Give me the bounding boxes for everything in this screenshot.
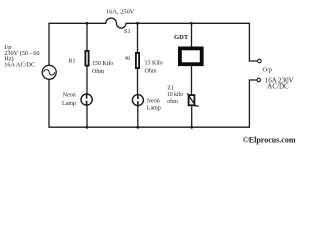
- wire: branch 2 lower: [137, 106, 139, 128]
- GDT gas discharge tube: [180, 48, 202, 64]
- varistor Z1: [187, 93, 199, 106]
- svg-text:R2: R2: [125, 55, 130, 60]
- svg-text:150 Kilo: 150 Kilo: [92, 61, 113, 67]
- svg-text:Neon: Neon: [147, 98, 160, 104]
- svg-text:15 Kilo: 15 Kilo: [145, 60, 163, 66]
- svg-text:©Elprocus.com: ©Elprocus.com: [243, 136, 296, 145]
- svg-text:16A AC/DC: 16A AC/DC: [4, 61, 35, 68]
- junction dot bottom rail / branch 3: [190, 126, 193, 129]
- svg-text:ohm: ohm: [167, 99, 178, 105]
- junction dot top rail / branch 3: [190, 22, 193, 25]
- svg-text:Ohm: Ohm: [92, 69, 104, 75]
- svg-text:AC/DC: AC/DC: [267, 82, 289, 90]
- svg-text:Lamp: Lamp: [62, 101, 76, 107]
- wire: branch 1 middle: [86, 67, 88, 95]
- junction dot top rail / branch 2: [136, 22, 139, 25]
- svg-text:Ohm: Ohm: [145, 69, 157, 75]
- neon lamp 2: [132, 95, 143, 106]
- wire: left rail upper (source to top rail): [48, 23, 50, 66]
- wire: branch 3 upper: [191, 23, 193, 47]
- output terminal 2 circle: [257, 78, 261, 82]
- wire: branch 2 upper: [137, 23, 139, 53]
- wire: branch 1 upper: [86, 23, 88, 51]
- svg-text:Lamp: Lamp: [147, 106, 161, 112]
- junction dot bottom rail / branch 1: [86, 126, 89, 129]
- wire: left rail lower (source to bottom rail): [48, 79, 50, 127]
- resistor R1: [85, 51, 88, 66]
- junction dot bottom rail / branch 2: [136, 126, 139, 129]
- wire: bottom rail: [48, 126, 250, 128]
- source V1: AC input circle with sine: [42, 65, 56, 79]
- wire: right rail lower to output terminal 2: [249, 80, 257, 128]
- svg-text:S1: S1: [124, 28, 131, 35]
- svg-text:R1: R1: [69, 59, 76, 65]
- wire: branch 3 middle: [191, 66, 193, 95]
- wire: branch 2 middle: [137, 69, 139, 95]
- wire: branch 3 lower: [191, 106, 193, 127]
- wire: branch 1 lower: [86, 105, 88, 127]
- svg-text:10 kilo: 10 kilo: [167, 92, 183, 98]
- neon lamp 1: [81, 94, 92, 105]
- junction dot top rail / branch 1: [86, 22, 89, 25]
- svg-text:Neon: Neon: [63, 93, 76, 99]
- output terminal 1 circle: [258, 59, 262, 63]
- svg-text:16A, 250V: 16A, 250V: [106, 8, 135, 15]
- wire: top rail with fuse wiggle: [49, 18, 250, 28]
- svg-text:GDT: GDT: [174, 34, 189, 41]
- wire: right rail upper to output terminal 1: [249, 23, 257, 61]
- resistor R2: [136, 53, 139, 68]
- svg-text:Z1: Z1: [167, 85, 174, 91]
- svg-text:O/p: O/p: [263, 67, 272, 74]
